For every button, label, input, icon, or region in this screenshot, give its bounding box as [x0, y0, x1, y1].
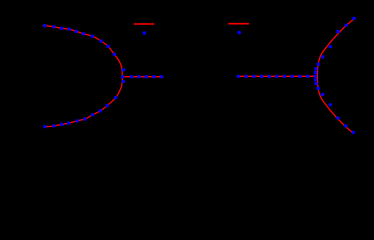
right legend: blue marker sample — [237, 31, 241, 35]
right plot: blue numeric markers on upper branch — [317, 17, 356, 66]
right plot: blue numeric markers on lower branch — [317, 87, 355, 134]
left plot: red horizontal equilibrium line — [122, 76, 163, 78]
right plot: blue numeric markers on horizontal line — [237, 75, 310, 78]
right plot: red analytic curve (rightward-opening fold) — [317, 18, 355, 133]
left plot: blue numeric markers on lower branch — [43, 96, 117, 128]
left legend: blue marker sample — [143, 31, 147, 35]
left plot: blue numeric markers on horizontal line — [130, 75, 163, 78]
left plot: red analytic curve (leftward-opening fold) — [43, 25, 122, 127]
right legend: red line sample — [228, 23, 249, 25]
right plot: blue numeric markers near fold — [314, 67, 318, 85]
left legend: red line sample — [134, 23, 155, 25]
left plot: blue numeric markers near fold — [121, 68, 125, 83]
right plot: red horizontal equilibrium line — [237, 75, 317, 77]
bifurcation diagram figure — [0, 0, 374, 158]
left plot: blue numeric markers on upper branch — [43, 24, 116, 56]
